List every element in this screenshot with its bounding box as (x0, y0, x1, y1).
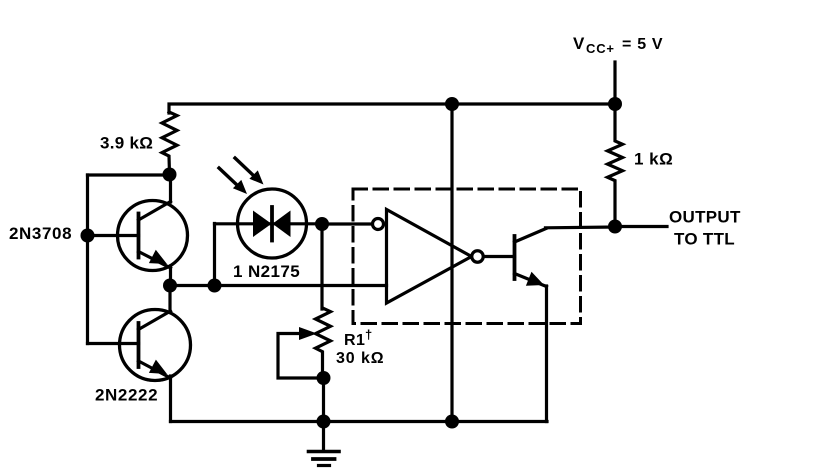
wire IC supply vertical (450, 104, 453, 422)
svg-text:1 kΩ: 1 kΩ (634, 150, 673, 169)
wire Q1 emitter drop (169, 266, 172, 286)
wire Q1 base (88, 234, 139, 237)
wire Q3 emitter drop (545, 286, 548, 422)
svg-text:3.9 kΩ: 3.9 kΩ (100, 134, 153, 153)
label 1N2175 (233, 262, 300, 281)
node junction top rail / Vcc (608, 97, 622, 111)
svg-text:2N3708: 2N3708 (9, 224, 72, 243)
node junction below 3.9 kohm (163, 168, 177, 182)
wire left vertical rail (86, 175, 89, 344)
svg-text:V: V (573, 34, 585, 53)
resistor 3.9 kohm (162, 112, 177, 174)
wire top supply rail (169, 104, 615, 113)
wire to comparator inverting input (322, 222, 373, 225)
node junction Q1 emitter / Q2 collector (163, 279, 177, 293)
wire R1 riser (320, 224, 323, 309)
label 1 kohm (634, 150, 673, 169)
potentiometer R1 30 kohm (316, 308, 331, 378)
transistor Q3 output (515, 229, 547, 287)
label 3.9 kohm (100, 134, 153, 153)
node junction photodiode / comparator input (315, 217, 329, 231)
inverting input bubble (373, 219, 384, 230)
op-amp U1 comparator triangle (387, 210, 472, 304)
light arrow 2 (235, 158, 264, 185)
transistor Q2 2N2222 (120, 310, 191, 381)
svg-text:TO TTL: TO TTL (674, 230, 735, 249)
wire Vcc stub (613, 62, 616, 104)
wire Q2 base (88, 342, 139, 345)
output bubble (472, 251, 484, 263)
ground (309, 422, 340, 466)
svg-text:= 5 V: = 5 V (622, 36, 663, 53)
wire junction to left rail (88, 173, 170, 176)
svg-text:R1: R1 (344, 332, 365, 349)
IC package dashed outline (353, 189, 581, 324)
label R1 dagger (344, 327, 372, 349)
wire U1 output to Q3 base (484, 255, 515, 258)
node output node (608, 220, 622, 234)
node junction IC supply / ground rail (445, 415, 459, 429)
resistor 1 kohm (608, 104, 623, 226)
svg-text:CC+: CC+ (586, 41, 615, 56)
node junction top rail / IC supply line (445, 97, 459, 111)
label 2N2222 (95, 386, 158, 405)
node junction R1 bottom / wiper (317, 371, 331, 385)
svg-text:OUTPUT: OUTPUT (669, 208, 741, 227)
wire photodiode left drop (213, 224, 216, 286)
svg-text:30 kΩ: 30 kΩ (336, 350, 384, 367)
photodiode D1 1N2175 (215, 189, 323, 258)
node junction Q1 base tap (81, 229, 95, 243)
node junction photodiode return (208, 279, 222, 293)
label OUTPUT TO TTL (669, 208, 741, 249)
wire output stub (615, 225, 667, 228)
label 2N3708 (9, 224, 72, 243)
wire Q1 collector riser (169, 174, 172, 202)
node junction ground tap (317, 415, 331, 429)
light arrow 1 (219, 168, 247, 194)
wiper arm of R1 (278, 327, 322, 378)
svg-text:†: † (365, 327, 372, 342)
wire Q2 emitter drop (169, 376, 172, 422)
label 30 kohm (336, 350, 384, 367)
wire R1 to ground rail (322, 378, 325, 422)
transistor Q1 2N3708 (118, 201, 188, 271)
wire bottom ground rail (171, 420, 548, 423)
wire lower comparator input (170, 284, 387, 287)
wire Q3 collector to output node (546, 225, 616, 229)
label Vcc+ = 5 V (573, 34, 663, 56)
svg-text:1 N2175: 1 N2175 (233, 262, 300, 281)
wire Q2 collector riser (168, 286, 171, 312)
svg-text:2N2222: 2N2222 (95, 386, 158, 405)
